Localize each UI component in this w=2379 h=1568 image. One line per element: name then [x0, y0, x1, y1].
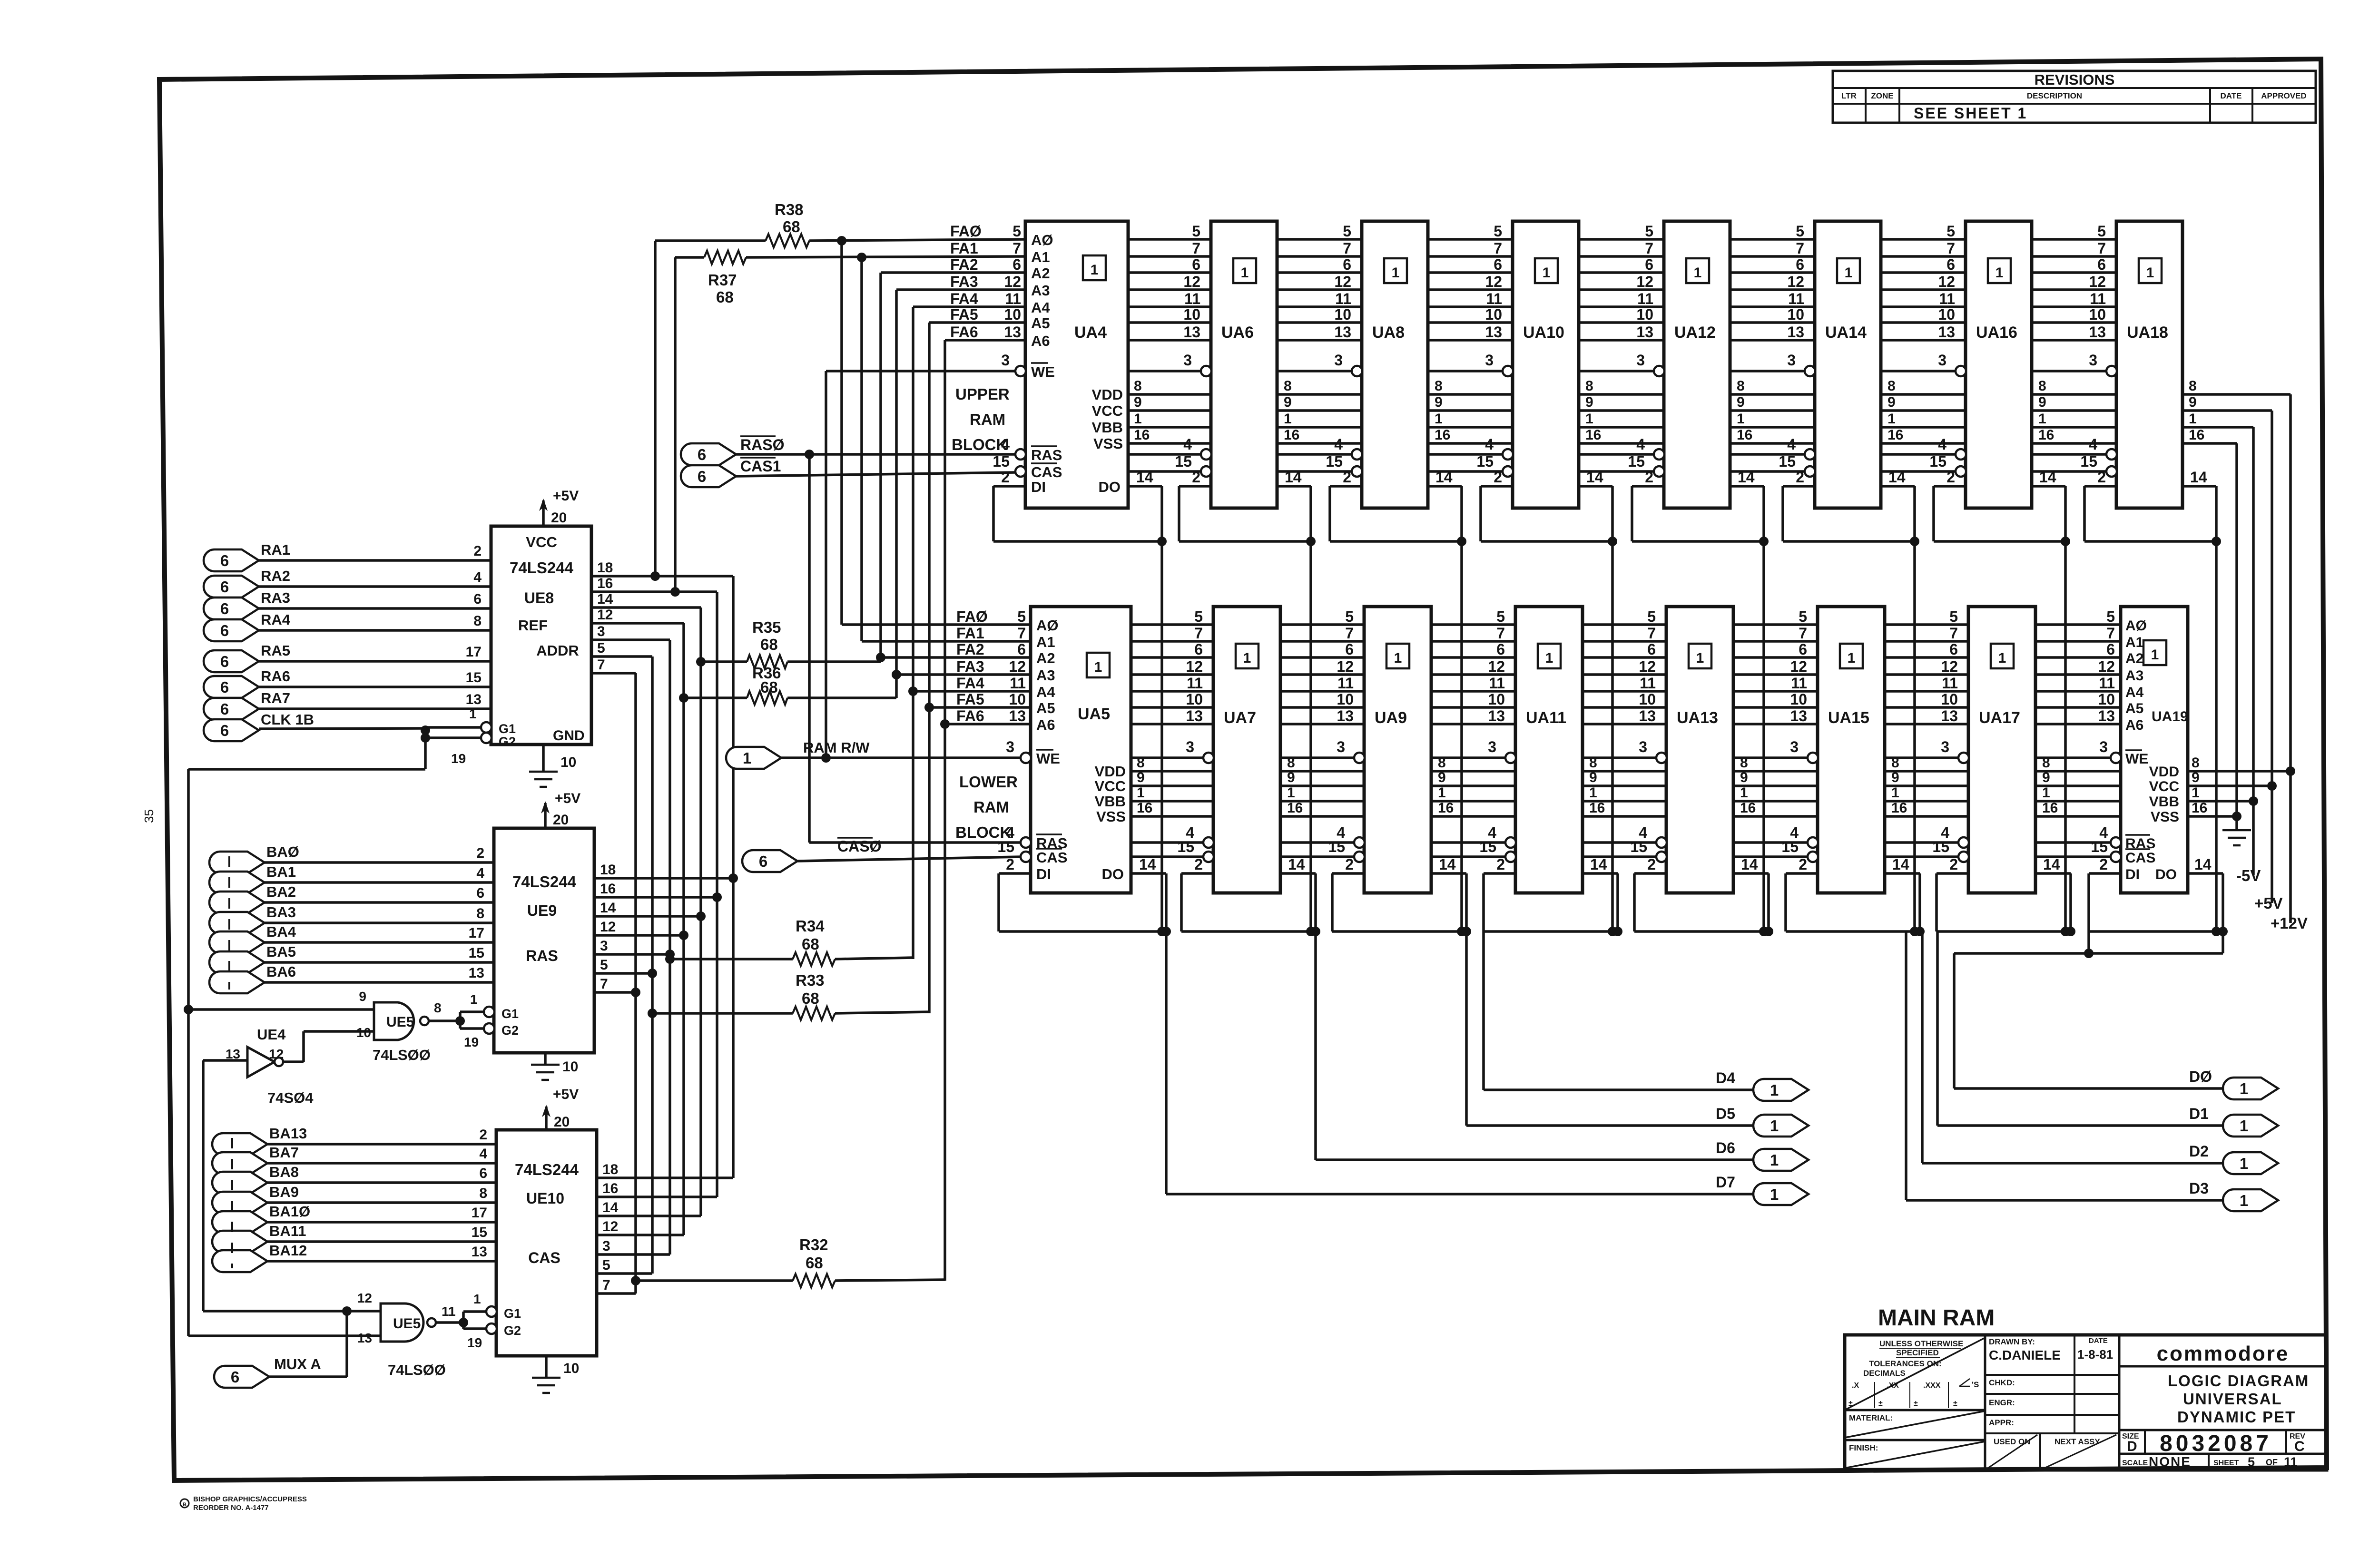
svg-text:7: 7 — [1494, 240, 1502, 257]
svg-text:BA3: BA3 — [266, 904, 296, 921]
svg-text:DI: DI — [1036, 866, 1051, 882]
svg-text:5: 5 — [1645, 223, 1653, 240]
connector BA5 — [209, 943, 494, 973]
svg-text:7: 7 — [1343, 240, 1351, 257]
svg-text:A4: A4 — [1031, 299, 1050, 316]
svg-text:SPECIFIED: SPECIFIED — [1896, 1348, 1939, 1357]
svg-text:4: 4 — [1001, 436, 1010, 453]
lower address bus rows — [1031, 625, 2121, 724]
svg-text:.X: .X — [1852, 1382, 1859, 1390]
svg-text:13: 13 — [2089, 323, 2106, 341]
svg-text:SEE SHEET 1: SEE SHEET 1 — [1914, 105, 2027, 122]
svg-text:2: 2 — [1194, 856, 1203, 873]
svg-text:6: 6 — [1494, 256, 1502, 273]
svg-text:11: 11 — [1939, 290, 1955, 307]
svg-text:6: 6 — [220, 578, 229, 596]
svg-text:1: 1 — [2038, 411, 2046, 427]
svg-text:16: 16 — [1284, 427, 1299, 443]
wire UE5b output to UE10 G1/G2 — [436, 1292, 487, 1350]
svg-text:20: 20 — [553, 812, 569, 828]
svg-text:15: 15 — [2091, 838, 2108, 855]
svg-text:RA6: RA6 — [261, 668, 290, 685]
wire UE10 output pin 14 — [597, 1200, 701, 1216]
svg-text:D5: D5 — [1716, 1105, 1735, 1122]
svg-text:9: 9 — [2192, 770, 2200, 785]
svg-text:5: 5 — [1647, 608, 1656, 625]
svg-text:6: 6 — [1192, 256, 1200, 273]
svg-text:12: 12 — [1009, 658, 1026, 675]
svg-text:15: 15 — [469, 945, 484, 961]
svg-text:2: 2 — [479, 1127, 487, 1143]
wire UE8 output pin 18 — [591, 560, 733, 576]
svg-text:6: 6 — [1194, 641, 1203, 658]
svg-text:1: 1 — [2042, 785, 2050, 801]
svg-text:5: 5 — [1799, 608, 1807, 625]
svg-text:DI: DI — [2125, 867, 2140, 882]
svg-text:74LS244: 74LS244 — [515, 1161, 579, 1178]
svg-text:DATE: DATE — [2220, 91, 2241, 100]
svg-text:13: 13 — [1488, 707, 1505, 725]
DI/DO loop under UA6 — [1179, 486, 1316, 546]
lower WE row — [1021, 756, 2121, 759]
connector RA3 — [204, 589, 491, 619]
power +5V at UE10 pin 20 — [542, 1087, 579, 1130]
svg-text:1: 1 — [1770, 1081, 1779, 1099]
dashed gang line BA0-BA6 — [228, 856, 230, 990]
svg-text:7: 7 — [1017, 625, 1026, 642]
svg-text:11: 11 — [1184, 290, 1200, 307]
connector RAS0 — [681, 436, 1016, 465]
svg-text:.XX: .XX — [1887, 1382, 1899, 1390]
svg-text:USED ON: USED ON — [1994, 1437, 2030, 1446]
svg-text:11: 11 — [1942, 675, 1958, 692]
svg-text:7: 7 — [597, 657, 605, 673]
svg-text:RASØ: RASØ — [740, 436, 784, 453]
svg-text:FA3: FA3 — [956, 658, 984, 675]
svg-text:FAØ: FAØ — [950, 223, 982, 240]
svg-text:1: 1 — [2240, 1155, 2248, 1172]
svg-text:17: 17 — [472, 1205, 487, 1221]
svg-text:8: 8 — [1134, 378, 1142, 394]
svg-text:UA16: UA16 — [1976, 323, 2017, 342]
RAM chip UA8 — [1326, 221, 1452, 508]
svg-text:VSS: VSS — [1096, 808, 1126, 825]
svg-text:11: 11 — [1486, 290, 1502, 307]
svg-text:8: 8 — [1137, 755, 1145, 771]
svg-text:DO: DO — [1099, 479, 1121, 495]
resistor R38 68 — [655, 201, 1025, 247]
svg-text:14: 14 — [1888, 469, 1906, 486]
svg-text:SCALE: SCALE — [2122, 1459, 2148, 1467]
svg-text:9: 9 — [1287, 770, 1295, 785]
wire UE5a inputs — [188, 1009, 374, 1062]
svg-text:MUX A: MUX A — [274, 1356, 321, 1372]
svg-text:FA5: FA5 — [950, 306, 978, 323]
svg-text:1: 1 — [2240, 1117, 2248, 1135]
svg-text:16: 16 — [1438, 800, 1454, 816]
connector BA13 — [212, 1125, 496, 1155]
svg-text:±: ± — [1878, 1400, 1883, 1408]
buffer UE8 74LS244 REF ADDR — [481, 526, 591, 749]
svg-text:WE: WE — [1036, 750, 1060, 767]
wire FA1 drop to lower block — [862, 257, 1031, 641]
svg-text:-5V: -5V — [2236, 867, 2261, 884]
svg-text:CAS: CAS — [528, 1249, 560, 1266]
svg-text:1: 1 — [470, 992, 478, 1007]
svg-text:FA6: FA6 — [956, 707, 984, 725]
svg-text:6: 6 — [1645, 256, 1653, 273]
svg-text:2: 2 — [1647, 856, 1656, 873]
svg-text:12: 12 — [1334, 273, 1351, 290]
wire UE8 output pin 3 — [591, 624, 670, 640]
svg-text:3: 3 — [1006, 738, 1014, 755]
svg-text:9: 9 — [2038, 394, 2046, 410]
svg-text:FA5: FA5 — [956, 691, 984, 708]
svg-text:1-8-81: 1-8-81 — [2077, 1347, 2113, 1362]
DI/DO loop under UA12 — [1632, 486, 1769, 546]
resistor R37 68 — [675, 251, 1025, 306]
svg-text:15: 15 — [1479, 838, 1496, 855]
connector D2 — [1922, 931, 2278, 1174]
svg-text:10: 10 — [1639, 691, 1656, 708]
svg-text:74L: 74L — [373, 1047, 398, 1063]
svg-text:FA2: FA2 — [956, 641, 984, 658]
svg-text:MAIN RAM: MAIN RAM — [1878, 1305, 1995, 1331]
svg-text:10: 10 — [2089, 306, 2106, 323]
svg-text:6: 6 — [1949, 641, 1958, 658]
svg-text:APPR:: APPR: — [1989, 1418, 2014, 1427]
svg-text:RA1: RA1 — [261, 541, 290, 558]
ground at UE9 pin 10 — [531, 1053, 578, 1080]
svg-text:11: 11 — [2099, 675, 2115, 692]
svg-text:6: 6 — [1799, 641, 1807, 658]
svg-text:4: 4 — [1183, 436, 1192, 453]
svg-text:13: 13 — [1941, 707, 1958, 725]
svg-text:16: 16 — [1585, 427, 1601, 443]
svg-text:BA1Ø: BA1Ø — [269, 1203, 310, 1220]
connector BA3 — [209, 904, 494, 934]
svg-text:A5: A5 — [1031, 315, 1050, 332]
svg-text:5: 5 — [1496, 608, 1505, 625]
svg-text:8: 8 — [434, 1000, 442, 1015]
svg-text:6: 6 — [1017, 641, 1026, 658]
RAM chip UA12 — [1628, 221, 1754, 508]
svg-text:A5: A5 — [2125, 701, 2143, 716]
svg-text:2: 2 — [1645, 469, 1653, 486]
svg-text:7: 7 — [1799, 625, 1807, 642]
svg-text:BA5: BA5 — [266, 943, 296, 960]
lower power rows VDD VCC VBB VSS — [1131, 771, 2291, 816]
svg-text:3: 3 — [1485, 352, 1494, 369]
Bishop Graphics reorder note — [180, 1499, 189, 1508]
DI/DO loop under UA19 — [2089, 873, 2228, 936]
svg-text:9: 9 — [1137, 770, 1145, 785]
svg-text:DØ: DØ — [2189, 1068, 2212, 1085]
svg-text:7: 7 — [2106, 625, 2115, 642]
connector D6 — [1316, 931, 1809, 1171]
svg-text:11: 11 — [2090, 290, 2106, 307]
svg-text:RA4: RA4 — [261, 611, 291, 628]
wire UE8 output pin 5 — [591, 640, 652, 657]
svg-text:68: 68 — [806, 1254, 823, 1272]
svg-text:RAM: RAM — [970, 411, 1005, 428]
svg-text:10: 10 — [1938, 306, 1955, 323]
svg-text:3: 3 — [1488, 738, 1496, 755]
svg-text:NONE: NONE — [2149, 1454, 2191, 1469]
svg-text:17: 17 — [466, 644, 482, 660]
svg-text:R32: R32 — [799, 1236, 828, 1254]
svg-text:VDD: VDD — [1092, 386, 1123, 403]
svg-text:13: 13 — [1938, 323, 1955, 341]
svg-text:UA7: UA7 — [1224, 709, 1256, 727]
svg-text:7: 7 — [1192, 240, 1200, 257]
svg-text:2: 2 — [1496, 856, 1505, 873]
svg-text:12: 12 — [357, 1291, 372, 1305]
nand gate UE5b 74LS00 — [357, 1291, 456, 1378]
svg-text:UE9: UE9 — [527, 902, 557, 919]
RAM chip UA7 — [1177, 607, 1305, 893]
connector RA7 — [204, 690, 491, 720]
svg-text:RA2: RA2 — [261, 568, 290, 584]
svg-text:AØ: AØ — [2125, 618, 2147, 634]
svg-text:10: 10 — [1787, 306, 1804, 323]
svg-text:UPPER: UPPER — [955, 385, 1010, 403]
svg-text:1: 1 — [1435, 411, 1443, 427]
svg-text:UE5: UE5 — [393, 1316, 421, 1332]
upper RAM block label — [952, 385, 1010, 453]
svg-text:10: 10 — [562, 1059, 578, 1075]
svg-text:20: 20 — [551, 510, 567, 526]
svg-text:16: 16 — [1589, 800, 1605, 816]
RAM chip UA5 — [1021, 607, 1131, 893]
svg-text:15: 15 — [2080, 453, 2097, 470]
svg-text:RA5: RA5 — [261, 642, 290, 659]
svg-text:15: 15 — [993, 453, 1010, 470]
wire CLK 1B to UE8 G1/G2 — [259, 706, 485, 769]
wire VBB step to -5V — [2249, 427, 2258, 875]
DI/DO loop under UA15 — [1786, 873, 1925, 936]
wire UE9 output pin 18 — [594, 862, 738, 883]
wire UE10 output pin 16 — [597, 1181, 717, 1197]
svg-text:15: 15 — [1175, 453, 1192, 470]
svg-text:C: C — [2294, 1439, 2305, 1454]
svg-text:CAS: CAS — [1031, 464, 1062, 480]
svg-text:UA15: UA15 — [1828, 709, 1869, 727]
svg-text:7: 7 — [600, 976, 608, 992]
ground at UE8 pin 10 — [529, 745, 576, 787]
svg-text:5: 5 — [1343, 223, 1351, 240]
svg-text:1: 1 — [1696, 650, 1704, 666]
svg-text:12: 12 — [1639, 658, 1656, 675]
connector MUX A — [214, 1311, 347, 1388]
svg-text:8: 8 — [2192, 755, 2200, 771]
svg-text:16: 16 — [2038, 427, 2054, 443]
svg-text:2: 2 — [1006, 856, 1014, 873]
svg-text:6: 6 — [476, 885, 484, 901]
svg-text:15: 15 — [1326, 453, 1343, 470]
svg-text:12: 12 — [1004, 273, 1021, 290]
connector BA7 — [212, 1144, 496, 1174]
svg-text:3: 3 — [1790, 738, 1799, 755]
wire UE9 output pin 5 — [594, 957, 657, 978]
svg-text:BA9: BA9 — [269, 1184, 299, 1200]
resistor R32 68 — [631, 1236, 945, 1287]
svg-text:CASØ: CASØ — [837, 838, 881, 855]
connector D3 — [1906, 931, 2278, 1211]
svg-text:1: 1 — [2240, 1192, 2248, 1209]
svg-text:5: 5 — [597, 640, 605, 656]
svg-text:3: 3 — [597, 624, 605, 639]
svg-text:G2: G2 — [501, 1023, 519, 1038]
svg-text:1: 1 — [1770, 1186, 1779, 1203]
svg-text:11: 11 — [1489, 675, 1505, 692]
connector D1 — [1937, 931, 2278, 1137]
lower CAS row — [1021, 855, 2121, 858]
svg-text:16: 16 — [597, 576, 613, 591]
svg-text:13: 13 — [1485, 323, 1502, 341]
svg-text:UA14: UA14 — [1825, 323, 1867, 342]
svg-text:1: 1 — [1585, 411, 1593, 427]
svg-text:R33: R33 — [796, 971, 825, 989]
wire R37 feed vertical — [670, 257, 680, 597]
svg-text:3: 3 — [2089, 352, 2097, 369]
wire R38 feed vertical — [650, 241, 660, 581]
svg-text:+5V: +5V — [553, 488, 579, 504]
DI/DO loop under UA16 — [1934, 486, 2070, 546]
svg-text:1: 1 — [1543, 265, 1551, 281]
connector BA11 — [212, 1223, 496, 1253]
svg-text:12: 12 — [1941, 658, 1958, 675]
svg-text:12: 12 — [602, 1219, 618, 1235]
wire UE10 output pin 18 — [597, 1162, 733, 1178]
svg-text:6: 6 — [1647, 641, 1656, 658]
svg-text:15: 15 — [1779, 453, 1796, 470]
svg-text:FA4: FA4 — [956, 675, 984, 692]
svg-text:A4: A4 — [1036, 684, 1055, 700]
wire FA5 riser — [924, 323, 1031, 1013]
svg-text:A6: A6 — [1031, 333, 1050, 349]
svg-text:74LS244: 74LS244 — [510, 559, 574, 577]
svg-text:UNIVERSAL: UNIVERSAL — [2183, 1390, 2282, 1408]
connector BA9 — [212, 1184, 496, 1214]
svg-text:11: 11 — [2284, 1455, 2298, 1469]
svg-text:1: 1 — [1998, 650, 2006, 666]
svg-text:5: 5 — [602, 1257, 610, 1273]
svg-text:5: 5 — [1192, 223, 1200, 240]
svg-text:8032087: 8032087 — [2160, 1431, 2272, 1456]
svg-text:5: 5 — [1013, 223, 1021, 240]
svg-text:VCC: VCC — [1095, 778, 1126, 794]
RAM chip UA19 — [2091, 607, 2211, 893]
svg-text:14: 14 — [1738, 469, 1755, 486]
svg-text:UE5: UE5 — [386, 1014, 414, 1030]
svg-text:A6: A6 — [2125, 717, 2143, 733]
svg-text:74L: 74L — [388, 1362, 413, 1378]
svg-text:FA6: FA6 — [950, 323, 978, 341]
svg-text:1: 1 — [1887, 411, 1896, 427]
svg-text:CAS1: CAS1 — [740, 458, 781, 475]
svg-text:BA1: BA1 — [266, 863, 296, 880]
svg-text:BISHOP GRAPHICS/ACCUPRESS: BISHOP GRAPHICS/ACCUPRESS — [193, 1495, 307, 1503]
svg-text:A2: A2 — [2125, 651, 2143, 666]
svg-text:6: 6 — [759, 853, 767, 870]
svg-text:2: 2 — [1494, 469, 1502, 486]
ground at UE10 pin 10 — [532, 1356, 579, 1393]
svg-text:7: 7 — [2097, 240, 2106, 257]
svg-text:16: 16 — [602, 1181, 618, 1196]
svg-text:UA13: UA13 — [1677, 709, 1718, 727]
svg-text:12: 12 — [1485, 273, 1502, 290]
svg-text:8: 8 — [476, 906, 484, 921]
svg-text:1: 1 — [1134, 411, 1142, 427]
svg-text:14: 14 — [597, 591, 613, 607]
svg-text:A4: A4 — [2125, 685, 2144, 700]
svg-text:1: 1 — [1891, 785, 1899, 801]
svg-text:15: 15 — [1781, 838, 1799, 855]
svg-text:GND: GND — [553, 728, 585, 744]
svg-text:18: 18 — [597, 560, 613, 576]
wire VSS step to ground — [2222, 443, 2251, 845]
svg-text:18: 18 — [600, 862, 616, 878]
svg-text:13: 13 — [1183, 323, 1200, 341]
svg-text:9: 9 — [1887, 394, 1896, 410]
svg-text:12: 12 — [600, 919, 616, 935]
wire VCC step to +5V — [2267, 411, 2277, 903]
svg-text:12: 12 — [1636, 273, 1653, 290]
svg-text:1: 1 — [1091, 262, 1099, 278]
svg-text:1: 1 — [1694, 265, 1702, 281]
svg-text:14: 14 — [2043, 856, 2060, 873]
svg-text:1: 1 — [2192, 785, 2200, 801]
svg-text:13: 13 — [472, 1244, 487, 1260]
svg-text:+12V: +12V — [2271, 914, 2308, 932]
svg-text:VSS: VSS — [1093, 435, 1123, 452]
svg-text:13: 13 — [1009, 707, 1026, 725]
svg-text:DI: DI — [1031, 479, 1046, 495]
svg-text:16: 16 — [2189, 427, 2204, 443]
svg-text:1: 1 — [1996, 265, 2004, 281]
svg-text:10: 10 — [1485, 306, 1502, 323]
svg-text:6: 6 — [220, 722, 229, 739]
svg-text:R34: R34 — [796, 917, 825, 935]
svg-text:5: 5 — [2106, 608, 2115, 625]
svg-text:6: 6 — [473, 591, 482, 607]
svg-text:3: 3 — [2099, 738, 2108, 755]
svg-text:16: 16 — [2192, 800, 2207, 816]
svg-text:1: 1 — [1737, 411, 1745, 427]
svg-text:8: 8 — [1737, 378, 1745, 394]
svg-text:4: 4 — [1636, 436, 1645, 453]
svg-text:VCC: VCC — [1092, 402, 1123, 419]
svg-text:12: 12 — [269, 1047, 284, 1061]
svg-text:14: 14 — [2194, 856, 2212, 873]
svg-text:UE8: UE8 — [524, 589, 554, 607]
svg-text:12: 12 — [1938, 273, 1955, 290]
svg-text:12: 12 — [597, 607, 613, 623]
svg-text:6: 6 — [220, 600, 229, 617]
svg-text:35: 35 — [142, 809, 156, 823]
svg-text:RA3: RA3 — [261, 589, 290, 606]
svg-text:2: 2 — [1345, 856, 1354, 873]
svg-text:DRAWN BY:: DRAWN BY: — [1989, 1337, 2035, 1346]
svg-text:74LS244: 74LS244 — [512, 873, 577, 891]
svg-text:12: 12 — [1183, 273, 1200, 290]
connector RA6 — [204, 668, 491, 698]
RAM chip UA17 — [1932, 607, 2060, 893]
upper CAS row — [1016, 470, 2116, 473]
svg-text:16: 16 — [1137, 800, 1152, 816]
svg-text:13: 13 — [1337, 707, 1354, 725]
